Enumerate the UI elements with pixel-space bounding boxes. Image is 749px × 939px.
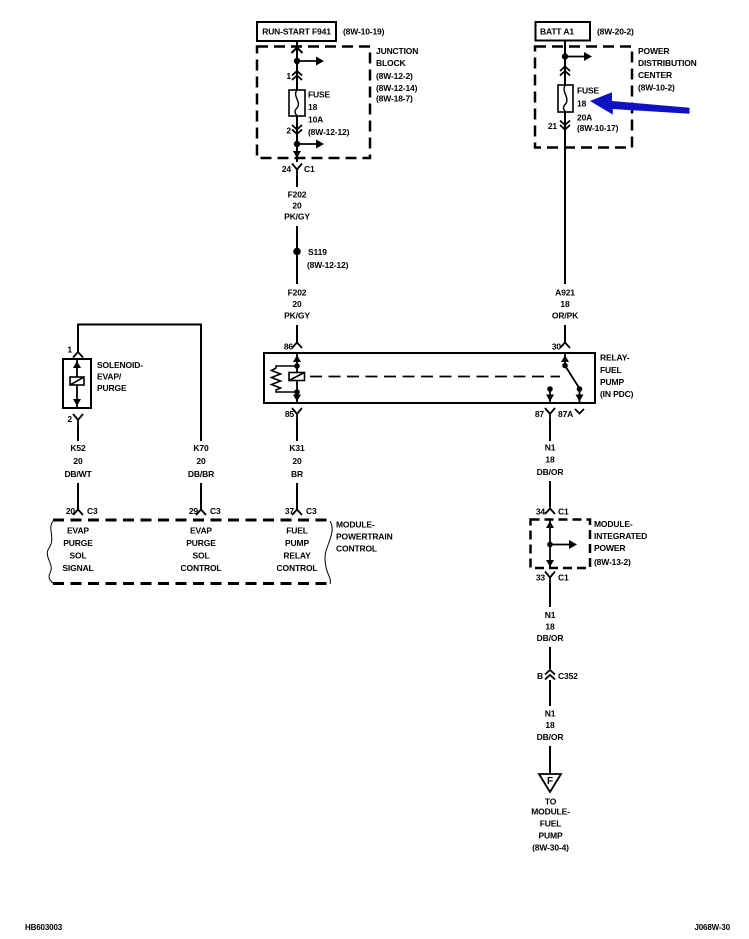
connector B C352 <box>537 670 578 681</box>
wire <box>296 226 298 248</box>
svg-text:RELAY: RELAY <box>283 551 311 561</box>
svg-text:C352: C352 <box>558 671 578 681</box>
arrow up inside relay pin 30 <box>561 355 569 362</box>
svg-text:PUMP: PUMP <box>539 831 563 841</box>
svg-text:SOL: SOL <box>192 551 209 561</box>
svg-text:SOLENOID-: SOLENOID- <box>97 360 143 370</box>
svg-text:DB/OR: DB/OR <box>537 633 564 643</box>
solenoid coil symbol <box>70 377 84 385</box>
pin 30 terminal <box>560 343 570 349</box>
splice S119 <box>293 248 301 256</box>
resistor in relay <box>272 366 298 392</box>
integrated power module internal wire <box>549 520 551 568</box>
pin 86 terminal <box>292 343 302 349</box>
svg-text:(IN PDC): (IN PDC) <box>600 389 634 399</box>
wire <box>296 255 298 284</box>
power source box RUN-START F941 <box>257 22 336 41</box>
svg-text:JUNCTION: JUNCTION <box>376 46 418 56</box>
connector 34 C1 <box>536 507 569 517</box>
svg-text:FUSE: FUSE <box>577 86 600 96</box>
coil bottom node dot <box>294 389 300 395</box>
svg-text:C1: C1 <box>558 573 569 583</box>
fuse 18 PDC <box>558 85 573 112</box>
wire 87A to box edge <box>579 389 581 403</box>
svg-text:C3: C3 <box>87 506 98 516</box>
svg-text:PURGE: PURGE <box>186 538 216 548</box>
arrow down inside relay pin 85 <box>293 395 301 402</box>
wire N1 below C1 <box>549 584 551 607</box>
wire N1 from pin 87 <box>549 420 551 441</box>
pin 87A terminal <box>575 409 584 414</box>
arrow down inside relay pin 87 <box>546 395 554 402</box>
relay label <box>600 353 634 400</box>
svg-text:RUN-START F941: RUN-START F941 <box>262 27 331 37</box>
integrated power module label <box>594 519 647 567</box>
junction dot PDC <box>562 53 568 59</box>
wire from RUN-START into junction block <box>296 41 298 90</box>
svg-text:(8W-12-2): (8W-12-2) <box>376 71 413 81</box>
svg-text:2: 2 <box>286 126 291 136</box>
wire K52 lower <box>77 483 79 509</box>
svg-text:MODULE-: MODULE- <box>594 519 633 529</box>
svg-text:EVAP/: EVAP/ <box>97 372 122 382</box>
svg-text:DB/OR: DB/OR <box>537 467 564 477</box>
connector 29 C3 <box>189 506 221 516</box>
junction dot <box>294 58 300 64</box>
pin 87 dot <box>547 386 553 392</box>
svg-text:DB/BR: DB/BR <box>188 469 214 479</box>
svg-text:18: 18 <box>560 299 570 309</box>
wire label K70 20 DB/BR <box>188 443 214 479</box>
solenoid label <box>97 360 143 393</box>
svg-text:24: 24 <box>282 164 292 174</box>
svg-text:DISTRIBUTION: DISTRIBUTION <box>638 58 697 68</box>
junction dot lower <box>294 141 300 147</box>
pin 87 terminal <box>545 408 555 420</box>
fuse label FUSE 18 10A <box>308 90 350 138</box>
relay switch common wire <box>564 353 566 365</box>
wire <box>549 647 551 669</box>
powertrain control module label <box>336 520 393 554</box>
svg-text:10A: 10A <box>308 115 323 125</box>
svg-text:18: 18 <box>545 720 555 730</box>
wire label K31 20 BR <box>289 443 305 479</box>
svg-text:(8W-18-7): (8W-18-7) <box>376 94 413 104</box>
svg-text:87: 87 <box>535 409 545 419</box>
svg-text:INTEGRATED: INTEGRATED <box>594 531 647 541</box>
arrow up inside relay pin 86 <box>293 355 301 362</box>
svg-text:CENTER: CENTER <box>638 70 672 80</box>
svg-text:30: 30 <box>552 342 562 352</box>
svg-text:OR/PK: OR/PK <box>552 311 579 321</box>
branch arrow right lower <box>297 140 324 149</box>
arrow down inside integrated power module <box>546 560 554 567</box>
blue callout arrow <box>590 92 690 114</box>
svg-text:2: 2 <box>67 414 72 424</box>
svg-text:MODULE-: MODULE- <box>336 520 375 530</box>
pin 1 terminal chevrons <box>292 71 302 80</box>
svg-text:(8W-20-2): (8W-20-2) <box>597 27 634 37</box>
svg-text:(8W-10-2): (8W-10-2) <box>638 83 675 93</box>
svg-text:C1: C1 <box>558 507 569 517</box>
svg-text:20: 20 <box>292 299 302 309</box>
svg-text:PK/GY: PK/GY <box>284 212 310 222</box>
svg-text:FUEL: FUEL <box>600 365 622 375</box>
svg-text:(8W-12-14): (8W-12-14) <box>376 83 418 93</box>
svg-text:BR: BR <box>291 469 303 479</box>
wire below C352 <box>549 680 551 706</box>
arrow up inside solenoid <box>73 361 81 368</box>
svg-text:EVAP: EVAP <box>190 526 212 536</box>
off-page connector F triangle <box>539 774 561 792</box>
wire label A921 18 OR/PK <box>552 288 579 321</box>
svg-text:DB/WT: DB/WT <box>64 469 92 479</box>
wire label K52 20 DB/WT <box>64 443 92 479</box>
relay coil branch wire <box>296 353 298 403</box>
solenoid internal wire <box>76 360 78 407</box>
integrated power module dashed box <box>531 520 591 569</box>
relay coil symbol <box>289 373 305 381</box>
wire label N1 18 DB/OR second <box>537 610 564 643</box>
svg-text:18: 18 <box>577 99 587 109</box>
svg-text:BLOCK: BLOCK <box>376 58 406 68</box>
solenoid box <box>63 359 91 408</box>
wire label F202 20 PK/GY <box>284 190 310 222</box>
wire K31 upper <box>296 420 298 441</box>
fuse 18 junction block <box>289 90 305 116</box>
relay internal dashed link <box>310 376 560 378</box>
svg-text:CONTROL: CONTROL <box>336 544 377 554</box>
svg-text:20: 20 <box>73 456 83 466</box>
svg-text:18: 18 <box>545 455 555 465</box>
internal node dot <box>547 542 553 548</box>
wire BATT A1 into PDC <box>564 40 566 85</box>
wire <box>549 481 551 508</box>
svg-text:FUSE: FUSE <box>308 90 331 100</box>
wire F202 upper <box>296 176 298 187</box>
pin function EVAP PURGE SOL SIGNAL <box>62 526 93 574</box>
wire label F202 20 PK/GY lower <box>284 288 310 321</box>
svg-text:POWER: POWER <box>594 543 625 553</box>
connector 37 C3 <box>285 506 317 516</box>
wire to off-page connector <box>549 746 551 773</box>
svg-text:18: 18 <box>545 622 555 632</box>
solenoid pin 1 terminal <box>73 352 83 358</box>
powertrain control module torn right edge <box>325 521 332 584</box>
svg-text:PK/GY: PK/GY <box>284 311 310 321</box>
wire 87 to box edge <box>549 389 551 403</box>
svg-text:FUEL: FUEL <box>540 819 562 829</box>
svg-text:K31: K31 <box>289 443 305 453</box>
branch arrow right inside module <box>550 540 577 549</box>
pin function FUEL PUMP RELAY CONTROL <box>277 526 318 574</box>
svg-text:C3: C3 <box>306 506 317 516</box>
svg-text:1: 1 <box>286 71 291 81</box>
connector 24 C1 <box>282 164 315 177</box>
branch arrow right PDC <box>565 52 592 61</box>
svg-text:SIGNAL: SIGNAL <box>62 563 93 573</box>
svg-text:20: 20 <box>292 456 302 466</box>
branch arrow right <box>297 57 324 66</box>
powertrain control module dashed box top edge <box>53 519 330 522</box>
pin function EVAP PURGE SOL CONTROL <box>181 526 222 574</box>
svg-text:20A: 20A <box>577 113 592 123</box>
svg-text:21: 21 <box>548 121 558 131</box>
wire label N1 18 DB/OR third <box>537 709 564 743</box>
arrow down inside solenoid <box>73 399 81 406</box>
svg-text:1: 1 <box>67 345 72 355</box>
battery source box BATT A1 <box>536 22 591 41</box>
solenoid pin 2 terminal <box>73 414 83 426</box>
wire from fuse down out of PDC <box>564 112 566 284</box>
wire K52 upper <box>77 426 79 441</box>
svg-text:(8W-10-17): (8W-10-17) <box>577 123 619 133</box>
switch pivot dot <box>562 363 568 369</box>
power distribution center dashed box <box>535 47 632 148</box>
svg-text:18: 18 <box>308 102 318 112</box>
svg-text:(8W-10-19): (8W-10-19) <box>343 27 385 37</box>
arrow down at junction block exit <box>293 151 301 158</box>
svg-text:DB/OR: DB/OR <box>537 732 564 742</box>
powertrain control module dashed box bottom edge <box>53 582 330 585</box>
destination label TO MODULE-FUEL PUMP <box>531 797 570 853</box>
svg-text:TO: TO <box>545 797 557 807</box>
svg-text:F202: F202 <box>288 288 307 298</box>
svg-text:34: 34 <box>536 507 546 517</box>
svg-text:BATT A1: BATT A1 <box>540 27 574 37</box>
solenoid feed wire (top U) <box>78 325 201 442</box>
svg-text:RELAY-: RELAY- <box>600 353 630 363</box>
svg-text:EVAP: EVAP <box>67 526 89 536</box>
powertrain control module torn left edge <box>47 521 54 584</box>
arrow down inside relay pin 87A <box>576 395 584 402</box>
pin 85 terminal <box>292 408 302 420</box>
svg-text:CONTROL: CONTROL <box>181 563 222 573</box>
wire K31 lower <box>296 483 298 509</box>
splice label <box>307 247 349 270</box>
svg-text:PURGE: PURGE <box>97 383 127 393</box>
wire label N1 18 DB/OR <box>537 443 564 478</box>
svg-text:POWERTRAIN: POWERTRAIN <box>336 532 393 542</box>
arrow up inside integrated power module <box>546 521 554 528</box>
svg-text:PUMP: PUMP <box>285 538 309 548</box>
svg-text:87A: 87A <box>558 409 573 419</box>
svg-text:K70: K70 <box>193 443 209 453</box>
svg-text:FUEL: FUEL <box>286 526 308 536</box>
svg-text:K52: K52 <box>70 443 86 453</box>
svg-text:(8W-13-2): (8W-13-2) <box>594 557 631 567</box>
connector 20 C3 <box>66 506 98 516</box>
svg-text:F202: F202 <box>288 190 307 200</box>
svg-text:N1: N1 <box>545 610 556 620</box>
svg-text:C1: C1 <box>304 164 315 174</box>
svg-text:20: 20 <box>196 456 206 466</box>
svg-text:(8W-30-4): (8W-30-4) <box>532 843 569 853</box>
junction block dashed box <box>257 47 370 159</box>
switch 87A dot <box>577 386 583 392</box>
svg-text:CONTROL: CONTROL <box>277 563 318 573</box>
wire to relay pin 86 <box>296 325 298 343</box>
svg-text:PURGE: PURGE <box>63 538 93 548</box>
switch blade <box>565 366 580 389</box>
connector 33 C1 <box>536 572 569 585</box>
svg-text:N1: N1 <box>545 443 556 453</box>
junction block label <box>376 46 418 104</box>
svg-text:F: F <box>547 776 553 787</box>
coil top node dot <box>294 363 300 369</box>
wire to relay pin 30 <box>564 325 566 343</box>
svg-text:N1: N1 <box>545 709 556 719</box>
svg-text:J068W-30: J068W-30 <box>694 923 730 932</box>
fuse label FUSE 18 20A <box>577 86 619 134</box>
svg-text:HB603003: HB603003 <box>25 923 63 932</box>
svg-text:MODULE-: MODULE- <box>531 807 570 817</box>
svg-text:86: 86 <box>284 342 294 352</box>
svg-text:(8W-12-12): (8W-12-12) <box>308 127 350 137</box>
svg-text:B: B <box>537 671 543 681</box>
svg-text:POWER: POWER <box>638 46 669 56</box>
svg-text:S119: S119 <box>308 247 327 257</box>
svg-text:A921: A921 <box>555 288 575 298</box>
svg-text:(8W-12-12): (8W-12-12) <box>307 260 349 270</box>
pin 21 terminal chevrons <box>560 121 570 130</box>
svg-text:C3: C3 <box>210 506 221 516</box>
svg-text:20: 20 <box>292 201 302 211</box>
relay box <box>264 353 595 403</box>
svg-text:SOL: SOL <box>69 551 86 561</box>
arrow up at junction block top <box>292 48 303 54</box>
power distribution center label <box>638 46 697 93</box>
svg-text:33: 33 <box>536 573 546 583</box>
pin 2 terminal chevrons <box>292 125 302 134</box>
wire from fuse to junction block bottom <box>296 116 298 162</box>
wire K70 lower <box>200 483 202 509</box>
svg-text:PUMP: PUMP <box>600 377 624 387</box>
fuse terminal chevrons top <box>560 67 570 76</box>
